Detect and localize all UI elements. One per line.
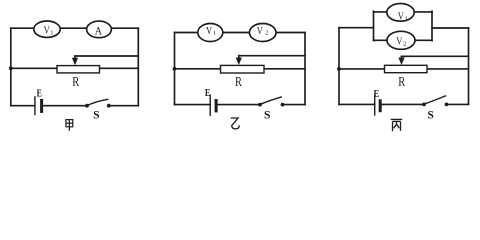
wire: slider feed horizontal [402, 55, 469, 57]
wire: left vertical [10, 28, 12, 106]
wire: left vertical [174, 33, 176, 105]
wire: right row horizontal [427, 68, 469, 70]
svg-text:S: S [264, 110, 270, 122]
rheostat R body [385, 65, 428, 72]
svg-text:2: 2 [403, 41, 406, 48]
wire: top horizontal [11, 27, 139, 29]
wire: bottom left [175, 104, 211, 106]
rheostat R body [57, 66, 100, 73]
node junction dot [337, 67, 341, 71]
node junction dot [9, 66, 13, 70]
wire: left vertical [338, 28, 340, 105]
voltmeter V1 [34, 21, 60, 37]
wire: right vertical [137, 28, 139, 106]
wire: slider stub [238, 56, 240, 59]
wire: slider stub [74, 56, 76, 59]
battery E long plate [34, 97, 36, 115]
wire: feed to parallel block [339, 27, 374, 29]
battery E short thick plate [379, 101, 382, 111]
wire: top branch [374, 11, 433, 13]
slider arrowhead of rheostat R [236, 58, 242, 66]
slider arrowhead of rheostat R [72, 58, 78, 65]
switch S right contact [107, 104, 111, 108]
svg-text:1: 1 [50, 29, 53, 36]
svg-text:1: 1 [213, 30, 216, 37]
battery E long plate [374, 95, 376, 115]
switch S right contact [281, 103, 285, 107]
slider arrowhead of rheostat R [398, 58, 404, 66]
wire: bottom right [42, 105, 87, 107]
wire: bottom left [11, 105, 35, 107]
wire: right row horizontal [264, 68, 305, 70]
wire: parallel block right bar [431, 11, 433, 40]
voltmeter V1 [387, 4, 414, 22]
switch S lever [261, 97, 282, 104]
voltmeter V2 [387, 31, 415, 49]
svg-text:1: 1 [405, 15, 408, 22]
wire: parallel block left bar [373, 11, 375, 40]
battery E short thick plate [40, 100, 43, 111]
svg-text:V: V [206, 26, 213, 37]
svg-text:E: E [37, 89, 42, 100]
wire: block to right vertical [432, 27, 469, 29]
wire: left row horizontal [11, 67, 57, 69]
wire: left row horizontal [175, 68, 221, 70]
switch S lever [88, 99, 108, 105]
svg-text:S: S [93, 110, 99, 122]
svg-text:V: V [396, 37, 403, 48]
switch S left contact [258, 103, 262, 107]
wire: left row horizontal [339, 68, 385, 70]
voltmeter V1 [198, 24, 223, 42]
svg-text:2: 2 [265, 30, 268, 37]
rheostat R body [221, 65, 265, 73]
wire: bottom right of switch [283, 104, 306, 106]
switch S lever [425, 96, 446, 104]
wire: slider feed horizontal [239, 55, 305, 57]
svg-text:R: R [72, 75, 79, 90]
wire: right vertical [468, 28, 470, 104]
wire: top horizontal [175, 32, 306, 34]
ammeter A [87, 21, 112, 38]
caption 甲 (drawn strokes) [66, 120, 73, 131]
node junction dot [173, 67, 177, 71]
voltmeter V2 [249, 24, 276, 42]
wire: right row horizontal [100, 67, 139, 69]
wire: bottom branch [374, 39, 433, 41]
wire: bottom right of switch [109, 105, 139, 107]
wire: slider stub [401, 56, 403, 59]
battery E long plate [209, 95, 211, 115]
svg-text:A: A [95, 23, 103, 37]
wire: bottom right of switch [447, 103, 469, 105]
svg-text:S: S [427, 110, 433, 122]
svg-text:R: R [398, 75, 405, 90]
switch S left contact [85, 104, 89, 108]
wire: bottom right [380, 103, 424, 105]
svg-text:E: E [205, 88, 211, 99]
wire: bottom right [216, 104, 260, 106]
battery E short thick plate [215, 101, 218, 111]
svg-text:R: R [235, 75, 242, 90]
switch S left contact [422, 103, 426, 107]
switch S right contact [445, 103, 449, 107]
wire: bottom left [339, 103, 375, 105]
svg-text:E: E [374, 89, 380, 100]
wire: right vertical [304, 33, 306, 105]
svg-text:V: V [257, 26, 264, 37]
caption 乙 (drawn strokes) [231, 118, 240, 129]
caption 丙 (drawn strokes) [391, 119, 403, 131]
wire: slider feed horizontal [75, 55, 138, 57]
